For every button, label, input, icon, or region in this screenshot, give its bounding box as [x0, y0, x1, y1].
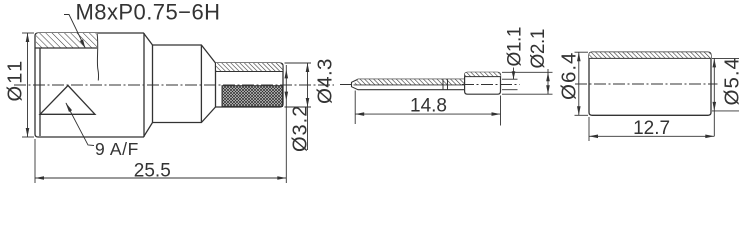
svg-text:12.7: 12.7: [633, 118, 670, 139]
svg-text:25.5: 25.5: [134, 161, 171, 182]
section boundary x=201.4: [200, 45, 202, 123]
leader 9 A/F: [66, 103, 95, 146]
pin tube: [465, 72, 501, 94]
dimension D3.2 arrows on x=286.3: [285, 69, 289, 100]
dimension 25.5: [35, 65, 286, 183]
pin sleeve hatch band: [216, 63, 283, 72]
thread line under hatch: [35, 47, 97, 49]
sleeve tube body: [589, 52, 711, 115]
dimension D11: [22, 33, 34, 137]
inner edge line x=40: [39, 34, 41, 136]
centerline in tube: [462, 84, 520, 86]
connector body outline: [35, 33, 283, 137]
hex corner line x=144: [143, 33, 145, 137]
dimension D2.1: [502, 69, 553, 94]
leader M8 thread: [64, 15, 85, 49]
pin shoulder x=215.5: [215, 63, 217, 107]
dimension D5.4: [712, 58, 739, 136]
knurl band: [222, 86, 283, 107]
break line (wavy): [97, 34, 98, 81]
centerline right view: [575, 83, 718, 85]
svg-text:Ø1.1: Ø1.1: [505, 27, 526, 67]
dimension D4.3: [285, 63, 312, 150]
svg-text:Ø3.2: Ø3.2: [290, 105, 312, 152]
thread section hatch (broken-out): [36, 33, 97, 48]
centerline middle view: [340, 84, 353, 86]
sleeve hatch band: [589, 52, 711, 58]
dimension 12.7: [589, 117, 714, 141]
contact pin bar: [352, 79, 465, 90]
svg-text:Ø5.4: Ø5.4: [721, 57, 744, 105]
dimension D1.1: [502, 68, 518, 90]
svg-text:Ø4.3: Ø4.3: [314, 58, 337, 104]
svg-text:9 A/F: 9 A/F: [95, 139, 139, 159]
dimension D6.4: [575, 52, 589, 115]
tube hatch band: [465, 72, 501, 76]
svg-text:M8xP0.75−6H: M8xP0.75−6H: [76, 0, 221, 25]
svg-text:Ø11: Ø11: [5, 59, 27, 102]
crimp ticks: [443, 79, 448, 90]
section boundary x=152.5: [152, 45, 154, 123]
hex socket triangle: [40, 86, 95, 115]
svg-text:Ø6.4: Ø6.4: [558, 52, 581, 100]
dimension 14.8: [355, 91, 500, 126]
centerline left view: [14, 84, 334, 86]
bar section hatch top half: [353, 79, 465, 85]
svg-text:14.8: 14.8: [410, 96, 447, 117]
svg-text:Ø2.1: Ø2.1: [528, 29, 549, 69]
